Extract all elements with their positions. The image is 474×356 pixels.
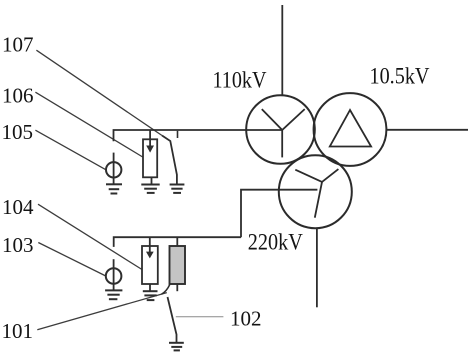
leader from 106 to arrester F2 [35,92,142,157]
wire bottom lead from winding W3 [316,228,318,307]
arrester F2 arrowhead [146,146,154,153]
arrester F1 arrow lead inside body [149,246,151,253]
disconnector K2 blade (open) [162,136,177,185]
wire 220kV branch from winding W3 to bus [241,190,317,238]
node tick on 110kV bus (disconnector fixed contact) [177,131,179,138]
wire right lead from winding W2 [387,129,469,131]
arrester F1 arrowhead [146,252,154,259]
leader from 102 to ground disconnector K1 [176,316,224,318]
voltage transformer PT2 lead [113,153,115,185]
wire from M1 bottom to arrester earth junction [162,285,170,295]
voltage transformer PT1 [106,268,122,284]
wire 220kV bus [114,237,241,247]
arrester F2 arrow lead inside body [149,139,151,146]
arrester F1 bottom lead [149,284,151,291]
leader from 101 to arrester earth lead junction [37,293,167,330]
svg-text:101: 101 [2,319,34,343]
arrester F2 top lead with arrow [149,130,151,147]
delta symbol of winding W2 [330,110,371,147]
leader from 103 to voltage transformer PT1 [38,243,106,277]
svg-text:10.5kV: 10.5kV [370,64,430,89]
wye symbol of winding W3 [295,169,338,218]
svg-text:110kV: 110kV [213,68,267,93]
svg-text:105: 105 [2,120,34,144]
svg-text:104: 104 [2,195,34,219]
wire top lead to winding W1 [281,5,283,95]
ground under PT2 [106,184,122,193]
ground under arrester F1 [143,291,158,300]
arrester F1 top lead with arrow [149,237,151,252]
ground under disconnector K2 [170,185,185,193]
leader from 105 to voltage transformer PT2 [35,130,106,170]
ground under disconnector K1 [169,343,184,351]
transformer winding W1 (110kV wye) circle [246,95,315,164]
arrester F2 body [143,139,157,177]
transformer winding W3 (220kV wye) circle [279,155,352,228]
wye symbol of winding W1 [262,109,305,157]
ground under arrester F2 [141,185,159,193]
arrester F1 body [142,246,158,284]
monitor device M1 bottom lead [176,284,178,291]
voltage transformer PT1 lead [113,259,115,290]
svg-text:107: 107 [2,32,34,56]
voltage transformer PT2 [106,162,121,177]
svg-text:220kV: 220kV [248,230,303,255]
ground disconnector K1 blade (open) [168,297,177,342]
monitor device M1 top lead [176,237,178,246]
arrester F2 bottom lead [151,177,153,184]
svg-text:106: 106 [2,83,34,107]
svg-text:102: 102 [230,306,262,330]
leader from 104 to arrester F1 [38,204,142,269]
svg-text:103: 103 [2,233,34,257]
ground under PT1 [105,290,122,299]
monitor device M1 body (gray) [170,246,186,284]
wire 110kV bus [114,130,283,141]
transformer winding W2 (10.5kV delta) circle [314,93,387,166]
leader from 107 to disconnector K2 [36,50,162,135]
